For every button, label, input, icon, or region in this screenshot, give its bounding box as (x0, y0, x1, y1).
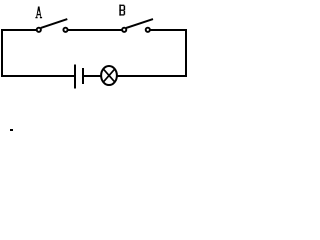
lamp cross stroke 2 (104, 69, 115, 82)
switch B right terminal (146, 28, 150, 32)
stray period mark bottom-left (10, 129, 13, 131)
switch A left terminal (37, 28, 41, 32)
wire: left rail (1, 29, 3, 77)
wire: lamp to right rail segment (115, 75, 187, 77)
lamp cross stroke 1 (104, 69, 115, 82)
wire: top-middle segment between switch A and switch B (65, 29, 125, 31)
lamp L1 bulb outline (101, 66, 117, 85)
switch B lever (126, 19, 153, 28)
switch B label (119, 5, 124, 16)
wire: top-right segment from switch B to right rail (147, 29, 187, 31)
wire: battery to lamp segment (84, 75, 103, 77)
battery long plate (74, 65, 76, 89)
switch A lever (41, 19, 68, 28)
wire: top-left segment from left rail to switch A left terminal (1, 29, 38, 31)
switch A label (35, 7, 42, 19)
wire: right rail (185, 29, 187, 77)
wire: bottom-left segment from left rail to battery (1, 75, 74, 77)
switch B left terminal (122, 28, 126, 32)
switch A right terminal (63, 28, 67, 32)
battery short plate (82, 68, 84, 84)
